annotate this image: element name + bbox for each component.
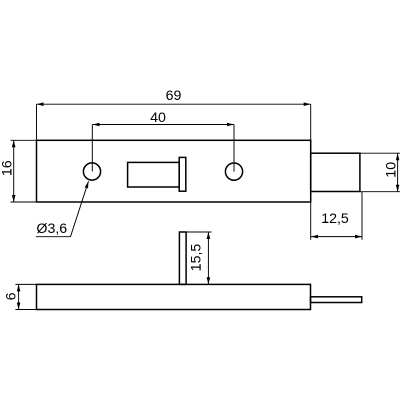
svg-text:12,5: 12,5 — [321, 211, 349, 227]
svg-text:69: 69 — [166, 88, 182, 104]
svg-text:Ø3,6: Ø3,6 — [36, 221, 67, 237]
dimension 6 — [3, 284, 36, 309]
svg-text:16: 16 — [0, 160, 15, 176]
slide slot — [128, 162, 180, 187]
svg-text:40: 40 — [150, 110, 166, 126]
dimension 15,5 — [186, 232, 211, 284]
bolt head (right small rectangle, top view) — [311, 153, 360, 191]
bolt rod (side view) — [311, 297, 362, 303]
dimension 40 — [92, 110, 234, 172]
top view plate body — [37, 140, 311, 202]
leader Ø3,6 — [36, 181, 89, 237]
svg-text:10: 10 — [383, 162, 399, 178]
svg-text:15,5: 15,5 — [189, 244, 205, 272]
bottom view plate body — [37, 284, 311, 309]
dimension 16 — [0, 140, 36, 202]
dimension 10 — [360, 153, 400, 192]
dimension 69 — [37, 88, 311, 140]
right mounting hole — [225, 163, 242, 180]
slide knob (top view) — [179, 157, 186, 191]
left mounting hole — [83, 163, 100, 180]
svg-text:6: 6 — [3, 292, 19, 300]
dimension 12,5 — [311, 192, 362, 240]
slide knob (side view) — [179, 232, 186, 284]
